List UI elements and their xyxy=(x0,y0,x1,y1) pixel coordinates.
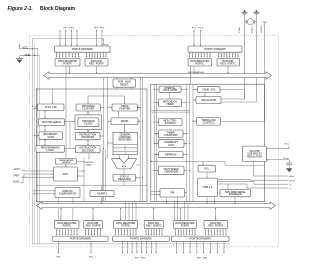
CONTROL LINES 2 xyxy=(86,165,92,167)
INTERNAL OSCILLATOR xyxy=(159,86,181,92)
PORTE pins xyxy=(58,241,92,253)
crystal oscillator symbol xyxy=(245,19,257,25)
PORTB dir-driver arrows xyxy=(205,229,227,235)
PORTC driver-dir arrows xyxy=(218,53,239,58)
wire UVcc xyxy=(267,146,290,150)
svg-text:USART1: USART1 xyxy=(97,191,108,195)
svg-text:COMPARATOR: COMPARATOR xyxy=(59,193,76,196)
D- label xyxy=(289,188,292,190)
PORTD dir-driver arrows xyxy=(145,229,162,235)
DATA REGISTER PORTF xyxy=(55,59,80,67)
internal bus rails xyxy=(84,78,193,202)
8-bit data bus (bottom, open double arrow) xyxy=(37,202,276,209)
AREF label xyxy=(13,175,20,178)
svg-text:COUNTERS: COUNTERS xyxy=(164,134,178,137)
label PF1-PF0 xyxy=(94,27,105,29)
svg-text:SCAN: SCAN xyxy=(47,136,54,139)
svg-text:REG. PORTB: REG. PORTB xyxy=(208,225,223,228)
AGND label xyxy=(13,181,20,184)
wires oscillator area xyxy=(193,89,264,122)
USART1 xyxy=(90,190,114,196)
svg-text:PORTD: PORTD xyxy=(121,225,130,228)
PORTF pin lines PF7-PF4 xyxy=(59,30,78,46)
clock line to PLL and regulator xyxy=(151,161,265,166)
PLL xyxy=(198,165,216,172)
svg-text:COUNTER: COUNTER xyxy=(82,108,94,111)
svg-text:VBus: VBus xyxy=(289,176,295,178)
svg-text:PORTF DRIVERS: PORTF DRIVERS xyxy=(72,47,93,51)
POR - BOD RESET xyxy=(113,79,136,87)
GENERAL PURPOSE REGISTERS xyxy=(113,132,137,155)
VCC power rail xyxy=(32,39,230,244)
svg-text:LINES: LINES xyxy=(86,165,92,167)
PORTE DRIVERS xyxy=(53,236,108,241)
8-bit data bus (top, open double arrow) xyxy=(44,72,272,79)
svg-text:ALU: ALU xyxy=(122,165,127,168)
RESET pin xyxy=(262,22,267,122)
DATA REGISTER PORTE xyxy=(55,220,80,228)
wire temp sensor to ADC xyxy=(65,164,66,167)
svg-text:RESET: RESET xyxy=(261,25,263,33)
DATA DIR. REG. PORTC xyxy=(217,59,240,67)
wire UGnd xyxy=(218,178,289,181)
svg-text:ADC: ADC xyxy=(63,172,69,176)
svg-text:Figure 2-1.: Figure 2-1. xyxy=(8,6,33,12)
wires PLL / USB xyxy=(202,161,235,203)
svg-text:SPI: SPI xyxy=(170,191,174,195)
wires bus to PORTD registers xyxy=(120,202,155,221)
XTAL2 pin xyxy=(253,9,259,102)
UCap label xyxy=(283,158,289,160)
svg-text:REGISTER: REGISTER xyxy=(118,178,131,181)
wires bus to PORTE registers xyxy=(60,208,93,221)
D+ label xyxy=(289,184,293,186)
svg-text:PORTF: PORTF xyxy=(63,62,72,65)
svg-text:CONTROL: CONTROL xyxy=(84,162,95,164)
svg-text:UNIT: UNIT xyxy=(168,144,174,147)
DATA REGISTER PORTC xyxy=(188,59,212,67)
wire PORTC data register to bus xyxy=(191,66,229,84)
TEMPERATURE SENSOR xyxy=(56,159,77,165)
STATUS REGISTER xyxy=(113,174,136,181)
wire AREF xyxy=(21,173,54,177)
horizontal wire above USART1 xyxy=(36,181,147,185)
DATA REGISTER PORTB xyxy=(174,220,197,228)
PORTF driver-register arrows xyxy=(56,53,79,58)
JTAG TAP xyxy=(38,104,65,111)
svg-text:RESET: RESET xyxy=(120,83,129,86)
svg-text:PORTC DRIVERS: PORTC DRIVERS xyxy=(204,47,226,51)
svg-text:D-: D- xyxy=(289,188,292,190)
svg-text:PORTC: PORTC xyxy=(196,62,205,65)
clock distribution wires xyxy=(152,110,190,112)
wire VBus xyxy=(254,162,289,176)
svg-text:USB 2.0: USB 2.0 xyxy=(203,185,213,189)
wire POR-BOD to bus xyxy=(116,78,131,90)
RESET label xyxy=(261,25,263,33)
svg-text:TIMER: TIMER xyxy=(166,103,174,106)
PE2 label xyxy=(89,257,94,259)
PORTF pin lines PF1-PF0 xyxy=(96,30,103,46)
PORTB DRIVERS xyxy=(171,236,229,241)
HIGH SPEED TIMER/PWM xyxy=(159,166,185,175)
MCU CTRL. & TIMING xyxy=(159,118,183,125)
svg-text:AREF: AREF xyxy=(13,175,20,178)
PD7 - PD0 label xyxy=(135,258,146,260)
peripherals enclosure xyxy=(151,84,265,201)
label PF7-PF4 xyxy=(64,27,75,29)
svg-text:POINTER: POINTER xyxy=(119,108,130,111)
wire OCD-flash-proglogic xyxy=(69,122,71,149)
svg-text:PORTB DRIVERS: PORTB DRIVERS xyxy=(190,237,211,241)
wire ADC to bus rail xyxy=(78,170,85,176)
wire AVCC xyxy=(22,170,54,171)
wire internal oscillator to watchdog xyxy=(169,92,170,99)
GND distribution wire xyxy=(38,55,40,244)
DATA REGISTER PORTD xyxy=(114,220,138,228)
PORTC driver-register arrows xyxy=(189,53,211,58)
svg-text:SRAM: SRAM xyxy=(121,119,129,123)
PORTC DRIVERS xyxy=(188,46,242,52)
OSCILLATOR xyxy=(196,97,221,104)
PORTE register-driver arrows xyxy=(56,229,78,235)
TIMER/ COUNTERS xyxy=(159,130,184,138)
svg-text:INTERFACE: INTERFACE xyxy=(229,193,242,196)
svg-text:FLASH: FLASH xyxy=(84,122,92,125)
DATA DIR. REG. PORTB xyxy=(204,220,228,228)
capacitor on UCap xyxy=(286,160,293,173)
svg-text:8-BIT DATA BUS: 8-BIT DATA BUS xyxy=(188,71,205,74)
XTAL1 pin xyxy=(242,9,248,99)
wire calib osc to oscillator xyxy=(204,93,205,97)
STACK POINTER xyxy=(112,104,137,111)
wires SPI to bus xyxy=(166,197,178,204)
svg-text:GND: GND xyxy=(25,53,31,57)
8-BIT DATA BUS label xyxy=(188,71,205,74)
svg-text:OSCILLATOR: OSCILLATOR xyxy=(163,89,178,92)
TIMING AND CONTROL xyxy=(197,117,221,125)
UGnd label xyxy=(289,180,295,182)
INSTRUCTION REGISTER xyxy=(76,132,101,140)
svg-text:TIMER/PWM: TIMER/PWM xyxy=(164,171,178,174)
wire control lines xyxy=(88,153,89,160)
svg-text:SENSOR: SENSOR xyxy=(62,162,71,164)
EEPROM xyxy=(159,152,184,158)
PROGRAM FLASH xyxy=(78,118,99,127)
wire temp sensor to rail xyxy=(77,160,85,162)
svg-text:LOGIC: LOGIC xyxy=(46,149,54,152)
svg-text:PB7 - PB0: PB7 - PB0 xyxy=(197,258,208,260)
svg-text:PD7 - PD0: PD7 - PD0 xyxy=(135,258,146,260)
svg-text:UVcc: UVcc xyxy=(284,144,290,146)
svg-text:PLL: PLL xyxy=(204,167,209,171)
svg-text:CALIB. OSC: CALIB. OSC xyxy=(202,88,216,91)
ANALOG COMPARATOR xyxy=(55,188,80,198)
BOUNDARY-SCAN xyxy=(39,132,63,139)
ON-CHIP DEBUG xyxy=(39,119,65,126)
CALIB. OSC xyxy=(198,87,221,93)
XTAL1 label xyxy=(238,26,241,33)
wires right-rect left column xyxy=(151,89,187,196)
AVCC label xyxy=(14,168,21,171)
chip outline (dashed border) xyxy=(29,36,278,247)
ADC xyxy=(54,167,78,181)
WATCHDOG TIMER xyxy=(159,99,182,106)
PROGRAM COUNTER xyxy=(76,104,101,111)
wires stack column xyxy=(87,96,140,178)
wire D+ xyxy=(218,182,289,185)
label PC6 xyxy=(199,27,204,29)
svg-text:Block Diagram: Block Diagram xyxy=(40,6,76,12)
VCC distribution wire xyxy=(36,49,38,244)
VCC label xyxy=(23,45,29,49)
wire D- xyxy=(218,184,289,188)
svg-text:ON-CHIP DEBUG: ON-CHIP DEBUG xyxy=(42,121,62,124)
DATA DIR. REG. PORTF xyxy=(85,59,108,67)
UVcc label xyxy=(284,144,290,146)
wires program column xyxy=(65,111,89,149)
PORTD DRIVERS xyxy=(113,236,170,241)
PROGRAM FLASH outer xyxy=(75,115,102,130)
wires USART1 xyxy=(101,185,102,203)
VCC pin xyxy=(19,44,38,49)
GND power rail segment xyxy=(33,44,35,244)
svg-text:& TIMING: & TIMING xyxy=(165,122,176,125)
svg-text:REGISTER: REGISTER xyxy=(82,136,95,139)
VBus label xyxy=(289,176,295,178)
PORTD pins PD7-PD0 xyxy=(122,241,157,253)
label PC7 xyxy=(192,27,197,29)
svg-text:XTAL2: XTAL2 xyxy=(250,26,253,33)
svg-text:JTAG TAP: JTAG TAP xyxy=(45,105,57,109)
svg-text:PF7 - PF4: PF7 - PF4 xyxy=(64,27,75,29)
SPI xyxy=(160,189,185,198)
svg-text:AGND: AGND xyxy=(13,181,20,184)
wires bus to PORTB registers xyxy=(175,202,217,221)
TWO-WIRE SERIAL INTERFACE xyxy=(220,190,251,197)
svg-text:UGnd: UGnd xyxy=(289,180,295,182)
ALU xyxy=(112,159,137,169)
ON-CHIP USB PAD 3V REGULATOR xyxy=(243,146,267,162)
svg-text:REG. PORTF: REG. PORTF xyxy=(89,62,104,65)
wire bus to JTAG TAP xyxy=(52,89,53,104)
CONTROL LINES 1 xyxy=(84,162,95,164)
DATA DIR. REG. PORTD xyxy=(144,220,163,228)
DATA DIR. REG. PORTE xyxy=(84,220,103,228)
PE6 label xyxy=(56,257,61,259)
svg-text:XTAL1: XTAL1 xyxy=(238,26,241,33)
svg-text:VCC: VCC xyxy=(23,45,29,49)
svg-text:AVCC: AVCC xyxy=(14,168,21,171)
svg-text:PORTE DRIVERS: PORTE DRIVERS xyxy=(70,237,91,241)
svg-text:CONTROL: CONTROL xyxy=(203,121,216,124)
wire top entry jog xyxy=(103,39,107,46)
svg-text:EEPROM: EEPROM xyxy=(165,153,176,157)
PORTE dir-driver arrows xyxy=(85,229,101,235)
svg-text:PF1 - PF0: PF1 - PF0 xyxy=(94,27,105,29)
wire UCap xyxy=(267,159,290,160)
svg-text:REGULATOR: REGULATOR xyxy=(247,155,262,158)
GND label xyxy=(25,53,31,57)
PORTF DRIVERS xyxy=(55,46,111,52)
wire AGND xyxy=(21,177,54,183)
wire PORTF data register to bus xyxy=(66,66,97,159)
wires analog comparator xyxy=(34,190,73,220)
svg-text:DECODER: DECODER xyxy=(82,149,94,152)
PB7 - PB0 label xyxy=(197,258,208,260)
svg-text:PORTE: PORTE xyxy=(63,225,72,228)
XTAL2 label xyxy=(250,26,253,33)
PORTB register-driver arrows xyxy=(175,229,196,235)
PORTD register-driver arrows xyxy=(115,229,137,235)
USB 2.0 xyxy=(198,178,218,196)
title Block Diagram xyxy=(40,6,76,12)
AVR CPU core enclosure xyxy=(36,89,147,202)
PORTF driver-dir arrows xyxy=(86,53,107,58)
title Figure 2-1. xyxy=(8,6,33,12)
PROGRAMMING LOGIC xyxy=(36,145,65,152)
svg-text:REG. PORTE: REG. PORTE xyxy=(86,225,101,228)
svg-text:PORTD DRIVERS: PORTD DRIVERS xyxy=(130,237,152,241)
svg-text:REG. PORTC: REG. PORTC xyxy=(221,62,236,65)
INSTRUCTION DECODER xyxy=(76,145,101,152)
ground symbol GND xyxy=(16,55,40,63)
svg-text:PORTB: PORTB xyxy=(181,225,190,228)
svg-text:OSCILLATOR: OSCILLATOR xyxy=(201,99,216,102)
svg-text:REGISTERS: REGISTERS xyxy=(118,140,132,142)
svg-text:UCap: UCap xyxy=(283,158,289,160)
wires JTAG chain xyxy=(34,106,46,146)
SRAM xyxy=(111,118,138,125)
svg-text:REG. PORTD: REG. PORTD xyxy=(146,225,161,228)
PORTB pins PB7-PB0 xyxy=(176,241,225,253)
PORTC pin lines PC7 PC6 xyxy=(193,30,201,46)
INTERRUPT UNIT xyxy=(159,140,185,148)
